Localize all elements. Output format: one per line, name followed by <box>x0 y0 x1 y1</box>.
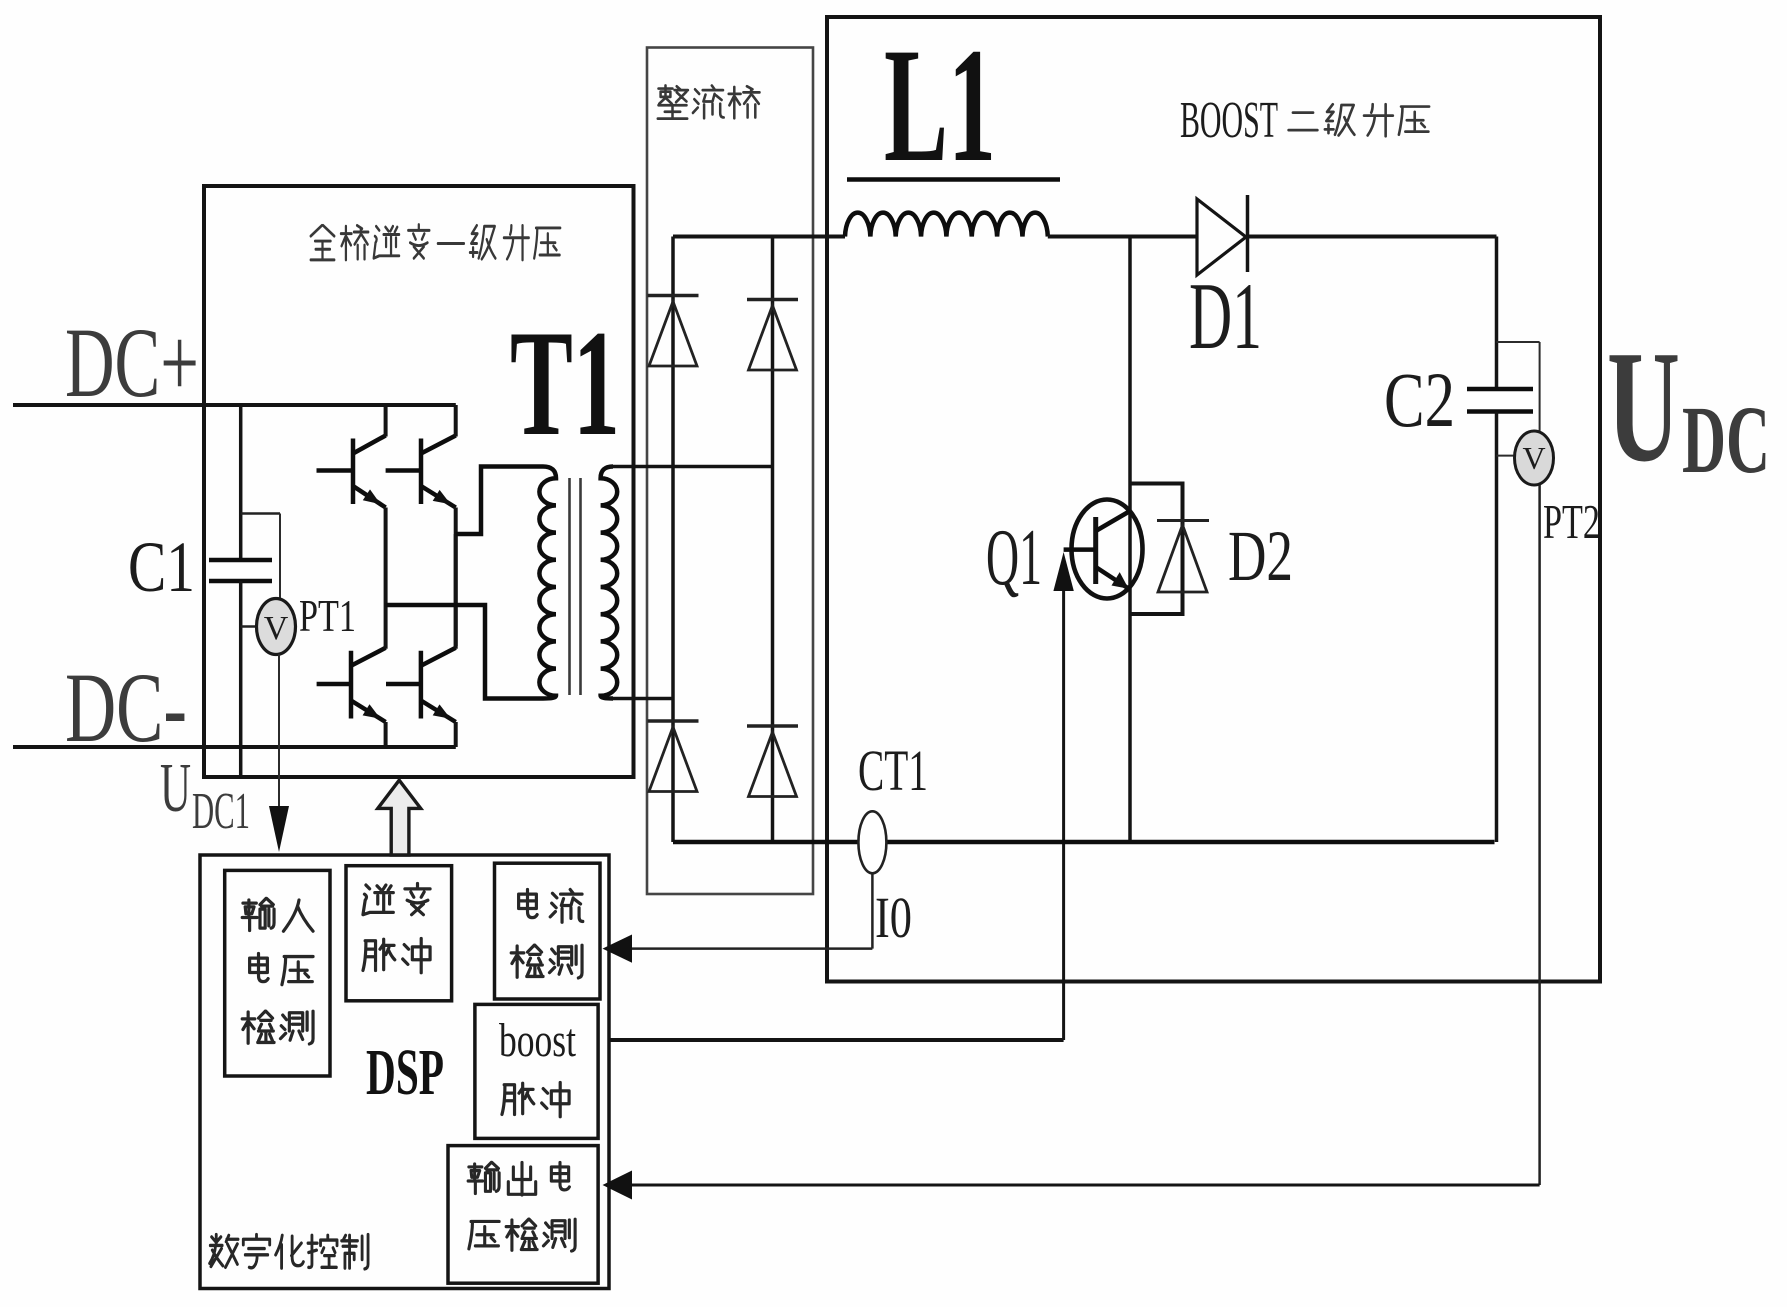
label D1 <box>1189 263 1262 369</box>
wire rectifier right leg <box>771 237 775 843</box>
transformer T1 primary winding <box>539 467 556 699</box>
diode bridge bottom-left <box>648 721 699 792</box>
capacitor C1 <box>209 405 272 777</box>
label C1 <box>128 527 195 607</box>
svg-text:boost: boost <box>499 1014 576 1067</box>
svg-text:C1: C1 <box>128 527 195 607</box>
label 数字化控制 <box>210 1235 368 1269</box>
box input voltage detection (输入电压检测) <box>225 870 330 1076</box>
label DSP <box>366 1036 444 1109</box>
svg-text:C2: C2 <box>1384 356 1455 443</box>
label DC- <box>65 652 187 763</box>
label PT1 <box>299 590 356 641</box>
wire output voltage feedback PT2 to DSP <box>603 485 1540 1200</box>
wire rectifier left leg <box>671 237 675 843</box>
wire L1 to D1 <box>1048 235 1197 239</box>
svg-text:DC: DC <box>1682 386 1770 493</box>
svg-text:BOOST: BOOST <box>1180 92 1278 149</box>
transistor Q_B bridge top-right (IGBT) <box>386 405 456 534</box>
label CT1 <box>858 738 928 803</box>
svg-text:D1: D1 <box>1189 263 1262 369</box>
diode bridge top-left <box>648 296 699 367</box>
box rectifier bridge (整流桥) <box>647 48 813 895</box>
box BOOST second stage (BOOST二级升压) <box>827 17 1600 982</box>
transformer T1 secondary winding <box>601 467 618 699</box>
diode bridge bottom-right <box>747 726 798 797</box>
box DSP digital control (数字化控制) <box>200 855 609 1289</box>
svg-text:PT1: PT1 <box>299 590 356 641</box>
capacitor C2 <box>1467 237 1533 843</box>
svg-text:DC+: DC+ <box>65 307 199 418</box>
box current detection (电流检测) <box>495 863 601 999</box>
svg-text:Q1: Q1 <box>986 514 1042 602</box>
wire right leg Q_B emitter to Q_D collector <box>454 534 458 646</box>
wire DC- rail <box>13 745 456 749</box>
label D2 <box>1228 516 1293 596</box>
label T1 <box>510 299 620 467</box>
diode D2 (anti-parallel loop) <box>1130 484 1209 615</box>
transistor Q_C bridge bottom-left (IGBT) <box>317 605 386 747</box>
transistor Q1 <box>1064 500 1143 599</box>
diode D1 <box>1197 195 1248 275</box>
label BOOST二级升压 <box>1180 92 1429 149</box>
svg-text:DSP: DSP <box>366 1036 444 1109</box>
box full-bridge inverter stage (全桥逆变一级升压) <box>204 186 634 777</box>
voltmeter PT2 <box>1497 342 1554 485</box>
wire bridge right-leg tap to T1 primary top <box>456 467 543 535</box>
transistor Q_A bridge top-left (IGBT) <box>317 405 386 605</box>
svg-text:DC-: DC- <box>65 652 187 763</box>
wire DC+ rail <box>13 403 456 407</box>
svg-text:U: U <box>160 750 191 827</box>
wire rectifier top rail to L1 <box>673 235 845 239</box>
label Q1 <box>986 514 1042 602</box>
voltmeter PT1 <box>241 514 296 655</box>
arrow inverter pulse 逆变脉冲 (hollow, DSP to bridge) <box>378 780 421 855</box>
label 整流桥 <box>658 86 760 119</box>
svg-text:D2: D2 <box>1228 516 1293 596</box>
svg-text:U: U <box>1607 317 1680 495</box>
box boost pulse (boost脉冲) <box>475 1004 598 1138</box>
label U_DC output <box>1607 317 1770 495</box>
wire T1 secondary top to right-leg midpoint <box>610 465 773 469</box>
wire D1 to C2 node <box>1248 235 1497 239</box>
wire boost gate drive + arrow into Q1 base <box>609 552 1074 1040</box>
svg-text:DC1: DC1 <box>192 783 250 840</box>
wire bridge left-leg midpoint to T1 primary bottom <box>386 605 543 699</box>
box inverter pulse (逆变脉冲) <box>346 866 452 1001</box>
current transformer CT1 <box>858 811 886 873</box>
diode bridge top-right <box>747 300 798 371</box>
inductor L1 <box>845 213 1048 237</box>
svg-text:T1: T1 <box>510 299 620 467</box>
label C2 <box>1384 356 1455 443</box>
label L1 with underline <box>847 15 1060 196</box>
svg-text:V: V <box>264 610 289 647</box>
box output voltage detection (输出电压检测) <box>448 1146 598 1284</box>
svg-text:I0: I0 <box>875 885 912 950</box>
svg-text:CT1: CT1 <box>858 738 928 803</box>
wire bottom rail (rectifier to C2) <box>673 840 1495 845</box>
wire I0 current feedback to DSP <box>603 873 873 962</box>
label I0 <box>875 885 912 950</box>
label 全桥逆变一级升压 <box>311 225 561 260</box>
label PT2 <box>1543 494 1600 549</box>
wire T1 secondary bottom to left-leg midpoint <box>610 697 673 701</box>
wire Q1 collector branch from top rail <box>1128 237 1132 843</box>
label U_DC1 <box>160 750 250 840</box>
node U_DC1 arrow to DSP <box>269 654 289 852</box>
svg-text:L1: L1 <box>884 15 996 196</box>
svg-text:V: V <box>1522 440 1545 476</box>
transformer T1 core <box>570 478 581 695</box>
svg-text:PT2: PT2 <box>1543 494 1600 549</box>
transistor Q_D bridge bottom-right (IGBT) <box>386 534 456 747</box>
label DC+ <box>65 307 199 418</box>
